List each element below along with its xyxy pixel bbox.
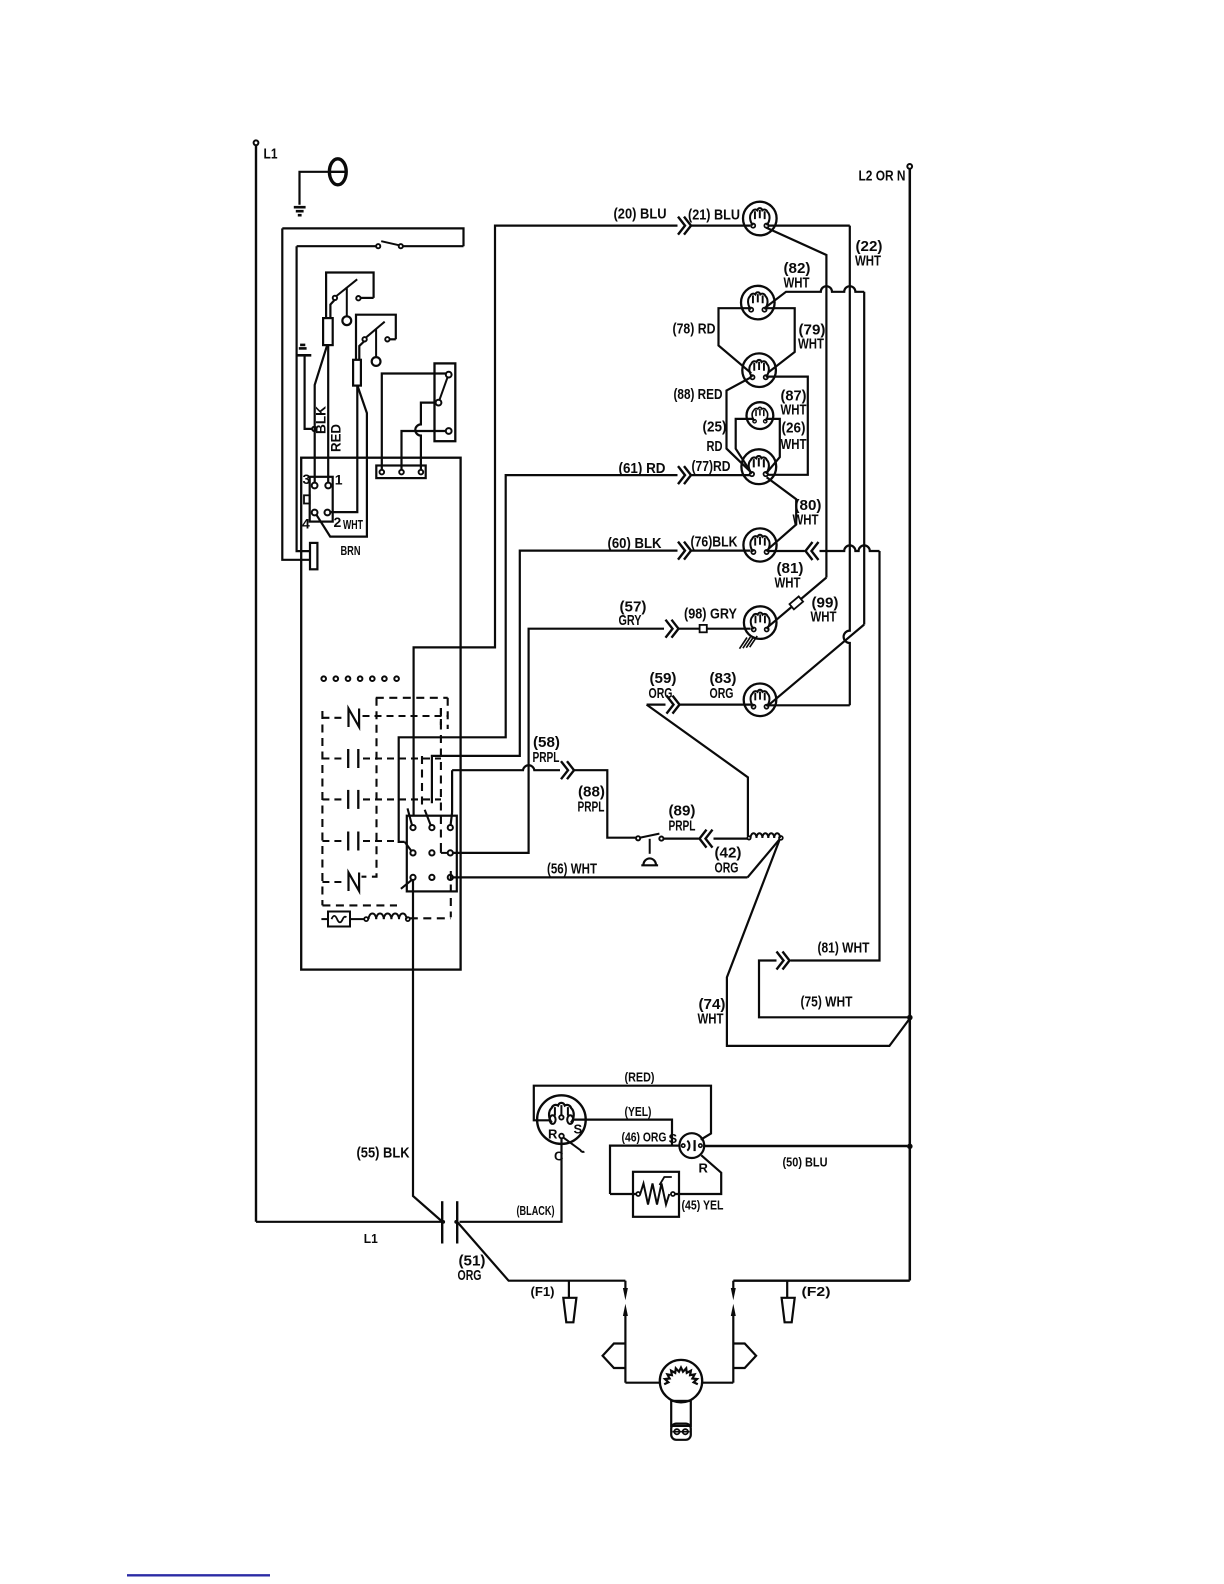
wire ground stem to BLK node: [305, 356, 312, 429]
connector CN1 key notch: [304, 495, 310, 503]
svg-text:(77)RD: (77)RD: [692, 458, 731, 475]
svg-text:BRN: BRN: [341, 543, 361, 558]
wire (89) PRPL segment: [664, 837, 699, 839]
svg-text:ORG: ORG: [649, 685, 673, 702]
heater box: [633, 1172, 679, 1217]
strip terminal T3: [419, 470, 424, 475]
svg-text:(60) BLK: (60) BLK: [608, 535, 662, 552]
cam switch N1 symbol: [349, 709, 360, 728]
igniter F1: [568, 1281, 570, 1298]
wire (42) ORG segment: [714, 837, 748, 839]
disconnect plug bars: [441, 1201, 443, 1243]
timer cam box dashed bottom left: [322, 904, 397, 906]
wire break (20)/(21): [678, 217, 685, 235]
inline connector (99) slanted: [790, 596, 804, 609]
switch S1 blade: [381, 241, 399, 245]
svg-text:(YEL): (YEL): [625, 1104, 652, 1119]
wire (59) ORG feed diagonal: [647, 705, 748, 837]
wire (56) WHT from pin R3C3: [453, 876, 748, 878]
wire (61) RD feed: [399, 475, 678, 842]
wire v4 (81)-(75) WHT: [791, 551, 880, 961]
wire (59) ORG row: [647, 703, 666, 705]
timer cam box dashed right vertical (mid): [440, 708, 442, 851]
wire (55) BLK from pin R3C1: [413, 880, 442, 1221]
timer cam box dashed left-inner vertical: [362, 698, 377, 877]
solenoid (25)/(26) small: [747, 402, 774, 429]
svg-text:WHT: WHT: [781, 436, 807, 453]
ground (timer) inverted: [300, 344, 305, 347]
node L1 terminal dot: [254, 140, 259, 145]
terminal strip: [376, 466, 425, 479]
inline connector (98): [700, 625, 707, 632]
cam N1 leads dashed: [322, 717, 344, 719]
switch S3 actuator: [375, 330, 377, 358]
blade pin R1C2: [425, 810, 431, 825]
pin 4: [312, 510, 318, 516]
protector (thermal) box: [328, 912, 350, 927]
wire (80) WHT loop: [767, 477, 797, 549]
svg-text:RED: RED: [328, 424, 344, 452]
relay K1 blade: [440, 377, 448, 399]
start relay K2: [679, 1133, 704, 1158]
wire switch drop to plug: [297, 246, 310, 551]
switch S2 right contact: [356, 296, 360, 300]
svg-text:(F1): (F1): [531, 1284, 555, 1299]
svg-text:WHT: WHT: [855, 253, 881, 270]
svg-text:WHT: WHT: [793, 512, 819, 529]
footer link line: [127, 1574, 270, 1576]
wire (82) WHT top run with hops: [765, 286, 865, 308]
lamp neon indicator: [329, 159, 346, 185]
cam N2 lead dashed: [322, 881, 344, 883]
svg-text:WHT: WHT: [775, 575, 801, 592]
wire (99) WHT diagonal: [768, 578, 827, 628]
relay K1 middle contact: [436, 400, 442, 406]
resistor R2: [353, 360, 361, 386]
solenoid (82) WHT: [741, 286, 775, 320]
wire break (59)/(83): [667, 696, 674, 714]
svg-text:(46) ORG: (46) ORG: [622, 1130, 667, 1145]
relay K1 top contact: [446, 372, 452, 378]
wire S3 contact to resistor R2: [359, 342, 364, 360]
svg-text:2: 2: [334, 514, 342, 530]
strip terminal T1: [380, 470, 385, 475]
svg-text:WHT: WHT: [811, 609, 837, 626]
timer box outline: [301, 458, 460, 970]
cam switch row B: [322, 798, 343, 800]
timer motor coil: [364, 917, 368, 921]
buzzer symbol: [649, 839, 651, 854]
svg-text:(81) WHT: (81) WHT: [818, 940, 870, 957]
wire break (81) lower: [777, 952, 784, 970]
wire R2 to pin 2: [331, 386, 358, 512]
svg-text:(76)BLK: (76)BLK: [691, 534, 738, 551]
solenoid coil (42): [747, 836, 750, 839]
solenoid (76) BLK: [743, 528, 776, 561]
heater overload tail: [660, 1177, 672, 1185]
flame sensor flag right: [733, 1344, 756, 1369]
pin R3C1: [410, 875, 415, 880]
wire break (89)/(42): [700, 830, 707, 848]
heater resistor zigzag: [640, 1184, 669, 1205]
timer cam dashed inner vertical: [421, 756, 423, 808]
wire (46) ORG run: [610, 1146, 679, 1194]
wire protector to coil: [350, 918, 364, 920]
solenoid (88) RED: [742, 353, 776, 387]
wire RED lead (R1 to pin 1): [327, 345, 329, 483]
pin R1C2: [429, 825, 434, 830]
pin R3C3: [448, 875, 453, 880]
wire (87) WHT loop: [766, 377, 808, 475]
svg-text:(55) BLK: (55) BLK: [357, 1145, 410, 1162]
solenoid (98) GRY: [744, 606, 777, 639]
svg-text:L2 OR N: L2 OR N: [859, 168, 906, 185]
strip terminal T2: [399, 470, 404, 475]
wire (79) WHT loop: [766, 308, 795, 372]
svg-text:WHT: WHT: [798, 336, 824, 353]
cam switch N2 symbol: [349, 873, 360, 892]
hatch marks (GRY solenoid): [740, 636, 758, 649]
svg-text:(RED): (RED): [625, 1070, 655, 1085]
junction dot (75)-L2: [907, 1015, 913, 1021]
wire (21) BLU segment: [692, 225, 751, 227]
wire v3 (82)-(83) vertical: [863, 292, 865, 625]
relay K1 bottom contact: [446, 428, 452, 434]
svg-text:WHT: WHT: [698, 1011, 724, 1028]
svg-text:4: 4: [302, 516, 310, 532]
switch S2 frame: [326, 273, 374, 319]
wire v1 from BLU terminal: [766, 228, 826, 578]
wire (98) GRY segment: [679, 628, 700, 630]
wire S2 contact to resistor R1: [330, 300, 334, 318]
solenoid (21) BLU fill valve: [743, 202, 777, 236]
wire arrows column right: [732, 1368, 734, 1383]
timer cam box dashed right vertical (top): [447, 698, 449, 729]
wire (20) BLU feed: [414, 226, 678, 816]
svg-text:WHT: WHT: [343, 517, 363, 532]
wire (81)-(75) left leg: [759, 961, 907, 1018]
switch S3 blade: [366, 322, 385, 338]
wire (58) PRPL run with hop: [452, 765, 560, 770]
switch S2 left contact: [333, 296, 337, 300]
wire (78) RD loop: [719, 308, 752, 373]
resistor R1: [323, 318, 333, 345]
wire L2 vertical rail: [909, 169, 912, 1281]
blade pin R3C1: [401, 880, 412, 889]
wire (81) WHT run from BLK solenoid: [768, 550, 804, 552]
pin 2: [325, 510, 331, 516]
wire tail to pin R2C3: [440, 851, 442, 853]
pin R1C1: [410, 825, 415, 830]
wire lamp to ground: [300, 172, 330, 205]
switch S4 blade: [640, 834, 659, 838]
switch S2 actuator: [346, 287, 348, 316]
wire bottom right run to L2: [733, 1279, 910, 1281]
wire break (58)/(88): [561, 761, 568, 779]
wire (57) GRY feed: [453, 629, 664, 853]
wire relay to heater: [675, 1155, 721, 1194]
disconnect dots: [441, 1220, 445, 1224]
wire relay bottom to strip T2: [402, 431, 446, 470]
svg-text:3: 3: [303, 471, 311, 487]
node L2 terminal dot: [907, 164, 912, 169]
svg-text:WHT: WHT: [784, 275, 810, 292]
wire (74) WHT loop: [727, 839, 910, 1046]
svg-text:(45) YEL: (45) YEL: [682, 1198, 724, 1213]
switch S4 left contact: [636, 836, 640, 840]
heater terminal left: [636, 1192, 640, 1196]
svg-text:R: R: [548, 1127, 558, 1142]
svg-text:L1: L1: [264, 146, 278, 163]
wire break (60)/(76): [678, 542, 685, 560]
wire (22) WHT: BLU right terminal to v2: [768, 225, 850, 227]
svg-text:RD: RD: [707, 438, 723, 455]
wire (25) RD small loop: [736, 419, 754, 471]
wire (83) ORG segment: [680, 703, 751, 705]
svg-text:(98) GRY: (98) GRY: [684, 606, 737, 623]
svg-text:WHT: WHT: [781, 402, 807, 419]
cam switch row A: [322, 757, 343, 759]
wire L1 vertical rail: [255, 145, 257, 1221]
wire to motor left: [625, 1382, 660, 1384]
wire (77) RD segment: [692, 474, 751, 476]
wire v3 diagonal to ORG solenoid: [768, 625, 864, 706]
protector sine element: [332, 916, 347, 923]
svg-text:(25): (25): [703, 419, 727, 436]
solenoid (83) ORG: [744, 684, 777, 717]
wire feed loop left drop to plug: [282, 228, 310, 559]
igniter F2: [786, 1281, 788, 1298]
wire (51) ORG diagonal: [457, 1222, 625, 1281]
timer cam box dashed bottom right: [410, 917, 451, 919]
cam N1 tick: [440, 708, 442, 726]
timer terminal circles row: [321, 676, 399, 681]
blade pin R1C1: [408, 808, 413, 825]
pin R2C2: [429, 850, 434, 855]
wire (26) WHT small loop: [766, 419, 780, 473]
flame sensor flag left: [603, 1344, 626, 1369]
svg-text:S: S: [669, 1131, 678, 1146]
svg-text:PRPL: PRPL: [533, 749, 560, 766]
heater terminal right: [671, 1192, 675, 1196]
wire switch row: [403, 245, 464, 247]
svg-text:(56) WHT: (56) WHT: [547, 861, 597, 878]
wire protector left lead: [321, 918, 328, 920]
node BLK terminal: [312, 427, 316, 431]
svg-text:(21) BLU: (21) BLU: [688, 207, 740, 224]
svg-text:PRPL: PRPL: [669, 818, 696, 835]
wire C lead to disconnect: [460, 1139, 562, 1222]
svg-text:(F2): (F2): [802, 1284, 831, 1299]
svg-text:GRY: GRY: [619, 612, 642, 629]
svg-text:(50) BLU: (50) BLU: [783, 1155, 828, 1170]
wire (81) WHT with hops to v4: [820, 545, 880, 551]
switch S4 right contact: [659, 837, 663, 841]
svg-text:PRPL: PRPL: [578, 799, 605, 816]
switch S3 left contact: [362, 337, 366, 341]
pin R2C1: [410, 850, 415, 855]
wire (58) PRPL from pin R1C3: [451, 770, 453, 825]
wire (88) PRPL segment: [575, 770, 636, 838]
wire relay middle to strip T3 (hop): [415, 403, 435, 470]
wire break (57)/(98): [666, 620, 673, 638]
svg-text:(BLACK): (BLACK): [517, 1203, 555, 1218]
blade pin R2C1: [405, 842, 412, 851]
wire (76) BLK segment: [692, 549, 751, 551]
wire (50) BLU run: [704, 1145, 907, 1147]
wire (YEL) run: [573, 1120, 672, 1146]
pump coupling: [671, 1424, 691, 1440]
svg-text:ORG: ORG: [715, 860, 739, 877]
motor shaft: [671, 1401, 691, 1426]
svg-text:(20) BLU: (20) BLU: [614, 206, 667, 223]
relay K1 frame: [435, 363, 456, 441]
motor start connector M1: [537, 1095, 586, 1152]
solenoid (77) RD: [741, 449, 776, 484]
switch S2 blade: [337, 279, 358, 296]
svg-text:ORG: ORG: [710, 685, 734, 702]
wire (RED) loop: [534, 1086, 711, 1140]
pin 3: [312, 483, 318, 489]
svg-text:(61) RD: (61) RD: [619, 460, 666, 477]
switch S3 frame: [356, 315, 396, 360]
wire relay top to strip T1: [382, 374, 446, 470]
switch S3 right contact: [385, 337, 389, 341]
wire arrows column left: [624, 1281, 626, 1288]
pin R2C3: [448, 850, 453, 855]
svg-text:BLK: BLK: [313, 406, 329, 434]
drive motor M2: [660, 1360, 702, 1402]
svg-text:R: R: [699, 1161, 709, 1176]
pin R3C2: [429, 875, 434, 880]
connector CN2 body: [407, 816, 457, 892]
svg-text:L1: L1: [364, 1231, 378, 1246]
cam switch row C: [322, 840, 343, 842]
wire break (61)/(77): [678, 466, 685, 484]
wire ORG right terminal to v2: [768, 704, 850, 706]
svg-text:1: 1: [335, 472, 343, 488]
wire break (81) chevrons: [806, 542, 813, 560]
svg-text:S: S: [574, 1122, 583, 1137]
connector CN1 body: [310, 477, 333, 522]
plug terminal block (left): [310, 543, 317, 569]
ground (lamp): [294, 206, 306, 209]
svg-text:(26): (26): [782, 420, 806, 437]
wire (88) RED loop: [727, 377, 752, 472]
svg-text:(88) RED: (88) RED: [674, 386, 723, 403]
switch S1 (door) contacts: [376, 244, 380, 248]
pin R1C3: [448, 825, 453, 830]
wire L1 bottom run to disconnect: [256, 1221, 442, 1223]
wire (56) diagonal to coil: [748, 839, 780, 878]
svg-text:(78) RD: (78) RD: [673, 321, 716, 338]
wire feed loop top: [282, 228, 463, 246]
wire BLK lead (R1 to pin 3): [315, 345, 328, 482]
wire v2 (22) WHT vertical with hop: [844, 226, 850, 706]
svg-text:(75) WHT: (75) WHT: [801, 994, 853, 1011]
timer cam box dashed top: [376, 697, 448, 699]
timer cam box dashed right vertical (bottom): [450, 871, 452, 917]
wire R2 to pin 4: [316, 387, 367, 537]
svg-text:ORG: ORG: [458, 1267, 482, 1284]
pin 1: [325, 483, 331, 489]
wire motor right: [702, 1382, 733, 1384]
wire (60) BLK feed: [432, 551, 678, 804]
timer cam box dashed left vertical: [321, 711, 323, 905]
junction dot (50)-L2: [907, 1144, 913, 1150]
